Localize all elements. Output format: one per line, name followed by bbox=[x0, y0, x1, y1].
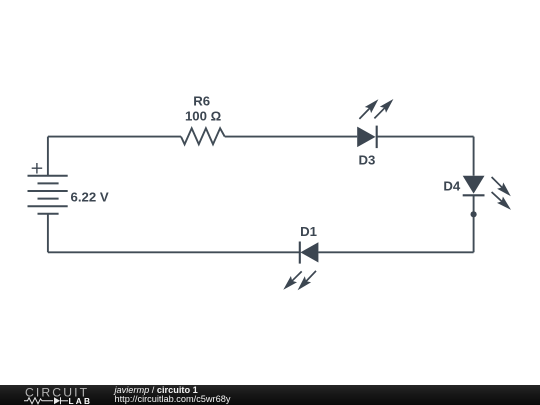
resistor R6 bbox=[181, 128, 225, 144]
footer bar bbox=[0, 385, 540, 405]
junction node dot bbox=[471, 211, 477, 217]
battery plus sign bbox=[32, 163, 43, 174]
CircuitLab logo bbox=[24, 385, 100, 405]
wire top rail left segment bbox=[48, 136, 181, 138]
wire battery top to top rail bbox=[47, 137, 49, 176]
svg-text:D1: D1 bbox=[300, 224, 317, 239]
LED D3 triangle bbox=[357, 127, 375, 148]
LED D4 cathode bar bbox=[463, 194, 485, 196]
svg-text:D4: D4 bbox=[443, 179, 461, 194]
LED D1 triangle bbox=[300, 242, 318, 262]
wire right vertical upper bbox=[473, 137, 475, 176]
svg-text:6.22 V: 6.22 V bbox=[71, 189, 109, 204]
wire bottom rail right segment bbox=[318, 251, 473, 253]
wire right vertical lower bbox=[473, 195, 475, 252]
LED D1 light arrow 2 bbox=[298, 270, 317, 290]
LED D1 light arrow 1 bbox=[283, 271, 302, 290]
LED D4 light arrow 1 bbox=[491, 176, 511, 196]
battery V1 6.22 V bbox=[28, 176, 68, 214]
wire resistor to D3 bbox=[225, 136, 358, 138]
svg-text:D3: D3 bbox=[358, 153, 375, 168]
LED D3 light arrow 2 bbox=[374, 99, 394, 119]
wire bottom rail left segment bbox=[48, 251, 300, 253]
LED D3 cathode bar bbox=[376, 126, 378, 149]
attribution text bbox=[115, 386, 231, 405]
LED D4 triangle bbox=[463, 176, 485, 194]
svg-text:LAB: LAB bbox=[69, 396, 93, 405]
LED D4 light arrow 2 bbox=[491, 191, 511, 210]
wire D3 to top-right corner bbox=[377, 136, 474, 138]
LED D3 light arrow 1 bbox=[359, 99, 379, 119]
wire left vertical bbox=[47, 214, 49, 253]
svg-text:100 Ω: 100 Ω bbox=[185, 109, 222, 124]
svg-text:R6: R6 bbox=[193, 94, 210, 109]
LED D1 cathode bar bbox=[299, 242, 301, 264]
